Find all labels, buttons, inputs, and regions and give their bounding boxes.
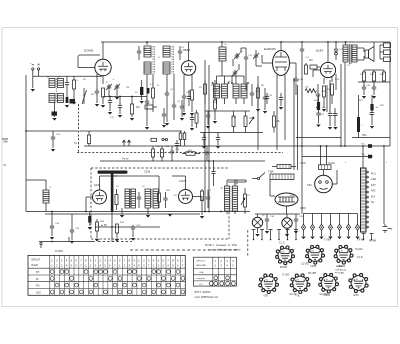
potentiometer VOL [244,194,247,207]
capacitor C22 [316,111,320,117]
svg-text:HB+: HB+ [4,141,9,144]
wire bus y131 [80,130,183,132]
coil L9b [153,189,159,208]
capacitor C14 [263,95,267,101]
capacitor C48 [191,113,193,116]
junction d2 [204,145,206,147]
capacitor C25 [370,110,374,116]
terminal strip pins [366,171,368,173]
trim arrow [82,90,87,104]
svg-text:PU1: PU1 [371,173,376,176]
svg-text:·o·: ·o· [325,278,328,281]
IFT1 core2 [172,46,174,74]
wire V3 top [280,42,282,51]
connector blob1 [368,144,372,148]
resistor R35 [273,111,275,116]
antenna mast [98,171,128,174]
resistor R18 [373,70,375,72]
wire rect wires [269,180,271,197]
svg-text:ALT: ALT [371,195,376,198]
svg-text:ECH81: ECH81 [84,49,94,53]
coil L1a [49,79,55,88]
lamp diamond D4 [330,214,332,225]
resistor R16 box [384,57,391,62]
switch SW [257,177,259,179]
svg-text:·o·: ·o· [282,250,285,253]
trimmer T3 [235,53,239,59]
resistor R37 [196,110,198,113]
capacitor C34 [51,212,53,225]
wire V4 drop [335,74,337,90]
wire v258 [257,76,259,150]
wire antenna bus2 [45,213,200,215]
coil L7 [45,180,47,190]
svg-text:C2-U51: C2-U51 [301,264,310,266]
terminal stub SR1 [363,234,365,240]
capacitor C10 [182,94,186,100]
svg-text:ECCM: ECCM [280,266,287,269]
ground C20 [362,96,366,99]
ground C22 [316,125,320,128]
svg-text:C30: C30 [307,184,312,187]
resistor R5 [191,90,194,100]
voltage selector box [270,174,294,180]
wire V4 grid [313,69,320,71]
ground D4 [328,237,332,240]
magic eye box [319,165,332,170]
coil dots [212,82,214,84]
wire V2 drop1 [183,75,185,96]
wire l7 top [26,179,46,181]
coil L10 mains [225,186,230,211]
wire IFT1 d1 [146,74,148,100]
link circles [162,138,164,140]
capacitor C17 [301,42,303,47]
ground D1 [301,237,305,240]
wire V1 grid loop [78,55,100,65]
svg-text:CIRCUIT: CIRCUIT [31,260,41,262]
wire V2 drop2 [191,75,193,90]
resistor R17 [363,70,365,72]
wire v327 [326,85,328,112]
resistor R28 [96,219,98,222]
choke L11 [358,95,360,117]
svg-text:mod ·W98TG/ad ·10: mod ·W98TG/ad ·10 [194,295,218,299]
arrow up sym [123,140,126,146]
coil L5 [219,47,226,61]
resistor R14 box [384,43,391,48]
wire right vertical [389,42,391,146]
resistor R13 [331,77,333,82]
wire IFT1 d4 [173,74,175,104]
svg-text:TB-U5P: TB-U5P [308,273,317,275]
trim dark [70,99,76,104]
wire v330 [329,80,331,112]
IFT1 coil c [163,46,170,57]
pot arrow [249,117,254,124]
tube T5 [93,190,107,204]
ground LP2 [285,234,289,237]
ground R1 [72,102,76,105]
ground sect3 [168,214,172,217]
resistor R31 [88,131,90,135]
resistor R10 [305,63,307,65]
shield box dashes bottom [77,152,283,154]
resistor R12 [323,78,325,84]
ground input [32,76,34,88]
trimmer T5b [254,53,258,59]
ground L1 [52,118,56,121]
lamp LP2 [282,218,292,228]
svg-text:NOTT ·RADIO: NOTT ·RADIO [194,291,210,294]
wire bus y161 [100,160,265,162]
resistor R3b box [145,105,153,109]
svg-text:VOL: VOL [246,195,251,197]
capacitor C43 [266,93,268,95]
terminal stub S1 [253,230,255,240]
ground D5 [337,237,341,240]
resistor R2 [102,88,105,97]
ground D2 [310,237,314,240]
junction d1 [109,96,111,98]
svg-text:·o·: ·o· [355,278,358,281]
capacitor C42 [217,133,219,137]
dark cap B [147,88,150,94]
capacitor C40 [206,113,210,119]
svg-text:Un-In: Un-In [122,157,129,161]
wire V4 anode [327,42,329,62]
capacitor C29 [206,146,208,150]
ground R3 [130,118,134,121]
ground R12 [322,109,326,112]
ground C27 [108,112,112,115]
resistor R38 box [151,138,157,141]
ground C34 [50,237,54,240]
capacitor C11 [213,87,217,93]
capacitor C23 [328,111,332,117]
ground C1 [65,105,69,108]
capacitor C1 [66,76,68,81]
capacitor C46 [181,100,183,104]
aux table grid [194,257,237,286]
wire drop bus [358,81,390,83]
svg-text:6TB: 6TB [264,295,269,298]
resistor R23 [152,146,154,149]
wire c26 stub [26,130,78,132]
coil L9a [145,189,151,208]
tube V4 EL84 [320,62,335,77]
capacitor C18 [316,92,320,98]
ground C8 [165,123,169,126]
capacitor C20 [363,82,365,86]
resistor R6 [204,80,206,84]
capacitor C24 [334,108,336,112]
svg-text:GF-9M: GF-9M [357,240,364,242]
resistor R19 [383,70,385,72]
wire OT sec [357,47,364,49]
resistor R4 [152,88,155,98]
IFT1 coil b [144,62,151,74]
terminal A2 [38,68,40,70]
ground sect2 [146,215,150,218]
wire right v384 [383,146,385,224]
lamp LP1 [252,217,262,227]
wire bottom bus [39,241,95,243]
ground D6 [346,237,350,240]
trimmer T4 [233,70,237,76]
wire OT drop1 [344,62,346,146]
wire V3 right [290,62,297,64]
svg-text:EXT: EXT [371,184,376,187]
wire left vertical [25,75,27,212]
svg-text:·a · two · d'attacamento · vol: ·a · two · d'attacamento · volume [207,249,241,252]
wire Rbox stub [380,44,384,46]
ground C3 [118,115,122,118]
ground C2 [95,104,99,107]
wire tune down [245,70,247,90]
svg-text:OLI: OLI [199,284,203,286]
transformer OT coil p [343,45,348,62]
transformer OT coil s [352,45,357,62]
ground C42 [216,146,220,149]
capacitor C7 [145,99,149,105]
capacitor C6 [178,49,182,55]
ground C21 [372,96,376,99]
resistor R27 [201,189,203,191]
wire IFT1 d2 [152,74,154,88]
svg-text:6T: 6T [36,270,40,274]
tube V7 rectifier [275,193,298,206]
coil L6c [233,84,239,98]
trimmer T2 [115,84,119,90]
wire input bus [33,75,102,77]
tube T6 [179,190,193,204]
svg-text:OLA: OLA [199,271,204,274]
capacitor C21 [373,82,375,86]
svg-text:EABC80: EABC80 [264,47,276,51]
wire V3 drop2 [284,75,286,140]
strip hatch [361,171,367,228]
resistor R7 [214,100,217,109]
wire avc link [103,96,147,98]
svg-text:·o·: ·o· [297,279,300,282]
wire sect drops [121,208,123,214]
wire osc h132 [200,132,263,134]
resistor R29 [116,224,119,233]
wire spk top [373,42,375,47]
svg-text:UZ-46V: UZ-46V [320,294,328,296]
svg-text:UZ-7M: UZ-7M [290,294,297,296]
svg-text:6BA6: 6BA6 [183,48,191,52]
IFT1 coil a [144,46,151,57]
wire osc link [221,61,223,76]
tube V8 magic eye [315,175,333,193]
wire V2 anode [188,42,190,61]
terminal stub S5 [287,230,289,240]
wire t6 right [193,196,203,198]
wire AVC bus [84,145,390,147]
svg-text:tr: tr [106,81,108,84]
terminal stub SR2 [371,234,373,240]
valve table grid [28,255,185,295]
wire osc h111 [205,110,250,112]
svg-text:1M: 1M [126,87,129,89]
ground C44 [279,107,283,110]
ground row2 [328,127,332,130]
tube V2 [181,61,195,75]
capacitor C28 [171,146,173,149]
capacitor C32 [206,195,210,201]
ground C10 [182,113,186,116]
terminal bottom [40,242,42,244]
wire ant stem [111,212,113,243]
svg-text:↦ 50: ↦ 50 [101,223,107,227]
resistor R40 [183,133,186,140]
resistor R1 [73,76,75,80]
resistor R15 box [384,50,391,55]
svg-text:AP-9M: AP-9M [369,240,376,243]
wire V1 drop2 [102,76,104,84]
dashed box IF section [91,168,229,239]
coil slug [52,112,58,116]
ground C7 [145,127,149,130]
svg-text:CIRCUIT: CIRCUIT [196,261,206,263]
svg-text:VALVURE: VALVURE [196,264,206,267]
capacitor C26 [52,131,54,135]
wire power h2 [255,213,300,215]
ground sect1 [120,215,124,218]
wire y137b [352,137,390,139]
capacitor C37 [233,180,239,184]
svg-text:T.BA: T.BA [268,171,274,174]
svg-text:12AT7: 12AT7 [179,179,187,183]
capacitor C16 [293,78,299,82]
ground C26 [51,149,55,152]
lamp diamond D7 [357,214,359,225]
resistor R26 [158,190,160,193]
wire v297 [297,85,299,170]
trimmer T1 [107,84,111,90]
wire lamp leads [257,214,259,217]
ground D3 [319,237,323,240]
wire bottom dash [98,241,132,243]
capacitor C35 [71,214,73,228]
svg-text:conjugate: conjugate [196,277,206,280]
capacitor C2 [95,89,99,95]
capacitor C50 [213,160,215,170]
svg-text:TRA: TRA [362,134,367,137]
coil L8b [131,189,136,208]
svg-text:AP2: AP2 [371,190,376,193]
svg-text:·o·: ·o· [312,250,315,253]
ground C25 [370,126,374,129]
wire OT drop2 [340,64,342,146]
capacitor C47 [187,94,191,100]
svg-text:100: 100 [36,291,41,295]
capacitor C13 [250,91,254,97]
svg-text:7A: 7A [74,142,77,145]
svg-text:1M: 1M [309,59,312,62]
junction d3 [301,145,303,147]
capacitor C33 [131,225,135,231]
tube socket SK6 [321,276,336,291]
ground C14 [263,111,267,114]
ground R29 [115,239,119,242]
capacitor C12 [244,55,248,61]
ground R7 [213,121,217,124]
wire y137a [296,137,341,139]
capacitor C41 [203,133,205,137]
svg-text:C 1 A: C 1 A [279,242,285,245]
wire drop top [364,69,384,71]
resistor R8 [257,84,259,88]
capacitor C31 [165,192,167,196]
lamp diamond D6 [348,214,350,225]
wire tune vert [241,47,246,49]
terminal stub S3 [270,230,272,240]
wire v294 [293,78,295,170]
svg-text:EL84: EL84 [316,49,323,53]
svg-text:C1-3r: C1-3r [357,256,363,259]
svg-text:TA-02A: TA-02A [355,248,363,251]
wire IFT1 d3 [166,74,168,92]
wire mid vert2 [208,65,210,212]
capacitor C39 [295,214,297,217]
tube V1 ECH81 [95,59,111,75]
coil L1 core [55,79,57,103]
dark cap A [140,87,143,95]
wire v8 right [332,183,337,185]
tube socket SK2 [308,248,322,262]
wire power h [227,179,246,181]
wire mid vert1 [204,60,206,212]
capacitor C8 [165,91,169,97]
svg-text:VALVE: VALVE [31,264,39,267]
shield box dashes left [78,104,80,153]
capacitor C44 [280,93,282,96]
resistor R24 [161,146,163,149]
IFT1 core [153,46,155,74]
table circles [50,270,54,274]
coil L6d [241,84,247,98]
ground R8 [256,109,260,112]
tube socket SK7 [351,276,366,291]
svg-text:C23b: C23b [144,170,151,174]
resistor R20 zigzag [305,89,316,93]
wire lower h [95,226,160,228]
svg-text:·o·: ·o· [340,250,343,253]
lamp diamond D2 [312,214,314,225]
coil L2b [58,94,64,103]
svg-text:T1-9M: T1-9M [324,240,331,242]
tube socket SK3 [337,248,351,262]
svg-text:T/-U51: T/-U51 [282,275,290,277]
capacitor C45 [163,108,165,112]
ground C18 [316,107,320,110]
ground LP1 [255,234,259,237]
tube socket SK5 [293,276,308,291]
wire coil leads [226,211,228,214]
svg-text:·o·: ·o· [265,279,268,282]
wire t5 top [99,176,101,190]
tube socket SK4 [261,276,276,291]
capacitor C30b [138,192,140,195]
resistor R36 [116,189,118,195]
wire bus y156 [302,156,368,158]
svg-text:DRO: DRO [301,207,306,210]
bracket F [383,224,392,233]
svg-text:O·NNN: O·NNN [55,250,63,253]
